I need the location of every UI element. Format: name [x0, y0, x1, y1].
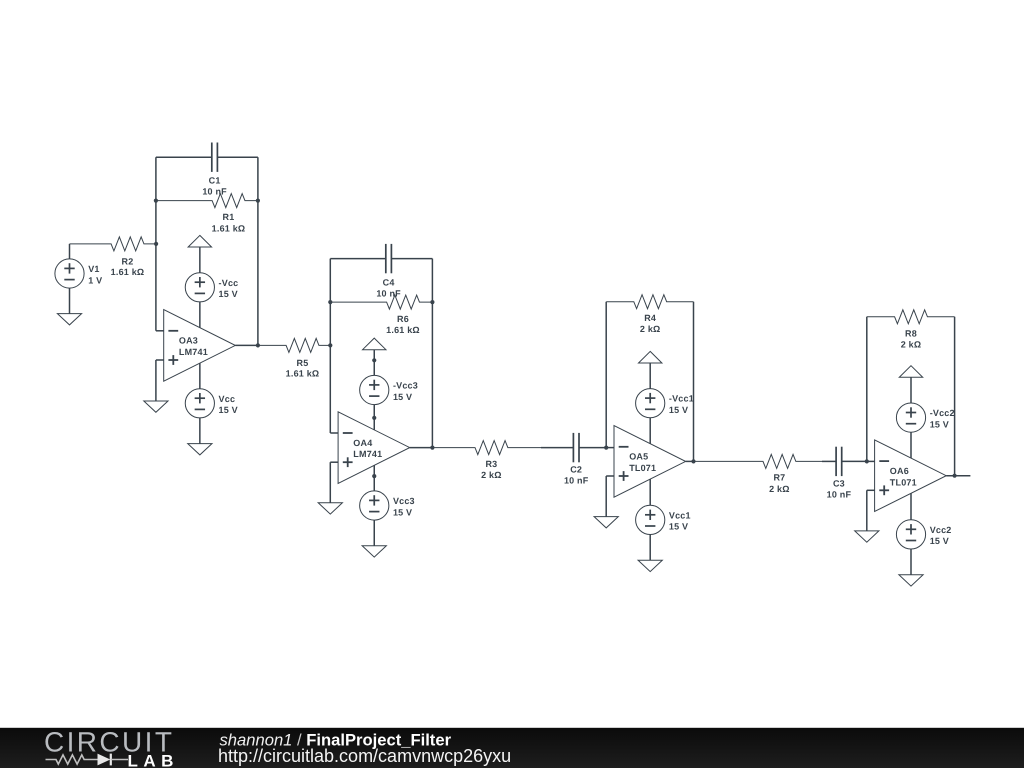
- junction OA3 output / feedback: [256, 343, 260, 347]
- svg-text:C2: C2: [570, 465, 582, 475]
- resistor R6 1.61 k&#937; (feedback): [330, 295, 432, 335]
- svg-text:-Vcc3: -Vcc3: [393, 381, 418, 391]
- wire OA6 inverting input stub: [867, 460, 875, 462]
- op-amp OA5 (TL071): [614, 426, 686, 498]
- wire OA4 non-inverting input down: [329, 462, 331, 503]
- power flag above -Vcc: [188, 235, 211, 247]
- power flag above -Vcc3: [363, 338, 386, 350]
- svg-text:Vcc1: Vcc1: [669, 510, 691, 520]
- svg-text:R4: R4: [644, 313, 656, 323]
- resistor R5 1.61 k&#937; (stage coupling): [258, 338, 330, 378]
- resistor R4 2 k&#937; (feedback): [606, 295, 693, 334]
- svg-text:1.61 kΩ: 1.61 kΩ: [386, 325, 420, 335]
- resistor R7 2 k&#937; (stage coupling): [694, 454, 823, 493]
- junction OA4 V- pin: [372, 474, 376, 478]
- svg-text:15 V: 15 V: [393, 392, 412, 402]
- voltage source -Vcc3 15 V: [360, 375, 418, 404]
- junction stage1 loop right / R1: [256, 199, 260, 203]
- svg-text:2 kΩ: 2 kΩ: [769, 484, 790, 494]
- capacitor C2 10 nF (coupling): [541, 433, 606, 486]
- wire stage1 loop right bus: [257, 157, 259, 345]
- wire OA3 inverting input stub: [156, 330, 164, 332]
- svg-text:OA5: OA5: [629, 452, 648, 462]
- capacitor C3 10 nF (coupling): [822, 447, 867, 500]
- footer banner background: [0, 728, 1024, 768]
- wire OA4 non-inverting input stub: [330, 461, 338, 463]
- svg-text:15 V: 15 V: [219, 405, 238, 415]
- voltage source Vcc2 15 V: [896, 520, 951, 549]
- svg-text:OA4: OA4: [353, 438, 372, 448]
- junction OA5 output / feedback: [691, 459, 695, 463]
- voltage source V1 1 V: [55, 259, 102, 288]
- ground at OA3 non-inverting input: [144, 401, 168, 412]
- voltage source Vcc1 15 V: [636, 505, 691, 534]
- svg-text:C1: C1: [209, 176, 221, 186]
- resistor R3 2 k&#937; (stage coupling): [432, 441, 541, 480]
- svg-text:15 V: 15 V: [930, 536, 949, 546]
- svg-text:-Vcc: -Vcc: [219, 278, 239, 288]
- wire OA5 output: [686, 460, 694, 462]
- wire OA3 non-inverting input down: [155, 360, 157, 401]
- power flag above -Vcc1: [639, 351, 662, 363]
- op-amp OA4 (LM741): [338, 412, 410, 484]
- svg-text:R5: R5: [297, 358, 309, 368]
- wire OA3 output: [235, 344, 258, 346]
- junction stage4 input node: [865, 459, 869, 463]
- wire Vcc2 to ground: [910, 549, 912, 575]
- wire OA3 non-inverting input stub: [156, 359, 164, 361]
- svg-text:10 nF: 10 nF: [564, 476, 589, 486]
- capacitor C1 10 nF (feedback): [156, 143, 258, 197]
- svg-text:C3: C3: [833, 478, 845, 488]
- svg-text:R7: R7: [773, 473, 785, 483]
- wire power flag to -Vcc1: [649, 363, 651, 389]
- junction stage2 loop left / R6: [328, 300, 332, 304]
- wire OA4 output: [410, 447, 433, 449]
- svg-text:OA3: OA3: [179, 336, 198, 346]
- voltage source Vcc 15 V: [185, 389, 238, 418]
- op-amp OA6 (TL071): [875, 440, 947, 512]
- wire OA4 V- pin to Vcc3: [373, 465, 375, 491]
- wire -Vcc1 to OA5 V+ pin: [649, 418, 651, 444]
- ground below Vcc3: [362, 546, 386, 557]
- wire V1 negative terminal down: [69, 288, 71, 314]
- wire OA6 non-inverting input stub: [867, 489, 875, 491]
- power flag above -Vcc2: [899, 366, 922, 378]
- wire OA6 V- pin to Vcc2: [910, 493, 912, 519]
- ground below Vcc2: [899, 575, 923, 586]
- junction OA6 output / feedback: [953, 474, 957, 478]
- svg-text:http://circuitlab.com/camvnwcp: http://circuitlab.com/camvnwcp26yxu: [218, 746, 511, 766]
- capacitor C4 10 nF (feedback): [330, 244, 432, 299]
- wire -Vcc to OA3 V+ pin: [199, 302, 201, 328]
- svg-text:15 V: 15 V: [930, 419, 949, 429]
- svg-text:-Vcc2: -Vcc2: [930, 408, 955, 418]
- voltage source -Vcc 15 V: [185, 273, 238, 302]
- svg-text:R3: R3: [485, 459, 497, 469]
- wire Vcc3 to ground: [373, 520, 375, 546]
- resistor R8 2 k&#937; (feedback): [867, 310, 955, 350]
- ground below Vcc: [188, 444, 212, 455]
- wire OA5 non-inverting input stub: [606, 475, 614, 477]
- svg-text:10 nF: 10 nF: [202, 186, 227, 196]
- ground at OA4 non-inverting input: [318, 503, 342, 514]
- svg-text:OA6: OA6: [890, 466, 909, 476]
- svg-text:C4: C4: [383, 277, 395, 287]
- ground at OA5 non-inverting input: [594, 517, 618, 528]
- svg-text:15 V: 15 V: [393, 507, 412, 517]
- ground at OA6 non-inverting input: [855, 531, 879, 542]
- svg-text:10 nF: 10 nF: [827, 489, 852, 499]
- svg-text:R2: R2: [122, 256, 134, 266]
- svg-text:1.61 kΩ: 1.61 kΩ: [212, 223, 246, 233]
- CircuitLab logo wordmark CIRCUIT: [44, 727, 174, 758]
- resistor R2 1.61 k&#937; (input): [70, 237, 157, 277]
- junction stage3 input node: [604, 446, 608, 450]
- wire Vcc to ground: [199, 418, 201, 444]
- banner url: [218, 746, 511, 766]
- wire stage4 loop right bus: [954, 317, 956, 476]
- voltage source Vcc3 15 V: [360, 491, 415, 520]
- wire Vcc1 to ground: [649, 535, 651, 561]
- svg-text:15 V: 15 V: [669, 522, 688, 532]
- wire OA5 non-inverting input down: [605, 476, 607, 517]
- junction OA4 V+ pin: [372, 416, 376, 420]
- wire stage1 loop left bus to inverting input: [155, 157, 157, 331]
- CircuitLab logo resistor-diode graphic: [46, 754, 129, 766]
- wire stage4 loop left bus: [866, 317, 868, 462]
- svg-text:R6: R6: [397, 314, 409, 324]
- wire V1 positive terminal up: [69, 244, 71, 259]
- voltage source -Vcc1 15 V: [636, 389, 694, 418]
- wire OA6 non-inverting input down: [866, 490, 868, 531]
- CircuitLab logo wordmark LAB: [128, 752, 179, 768]
- junction stage1 loop left / R1: [154, 199, 158, 203]
- wire stage3 loop left bus: [605, 302, 607, 448]
- svg-text:LM741: LM741: [353, 449, 382, 459]
- svg-text:Vcc: Vcc: [219, 394, 236, 404]
- svg-text:2 kΩ: 2 kΩ: [481, 470, 502, 480]
- junction stage2 input node: [328, 343, 332, 347]
- wire -Vcc to power flag: [199, 247, 201, 273]
- wire -Vcc2 to OA6 V+ pin: [910, 432, 912, 458]
- svg-text:15 V: 15 V: [669, 405, 688, 415]
- svg-text:1 V: 1 V: [88, 275, 102, 285]
- wire stage2 loop left bus to inverting input: [329, 259, 331, 433]
- svg-text:Vcc2: Vcc2: [930, 525, 952, 535]
- wire stage2 loop right bus: [431, 259, 433, 448]
- ground below V1: [57, 314, 81, 325]
- wire power flag to -Vcc2: [910, 377, 912, 403]
- ground below Vcc1: [638, 560, 662, 571]
- svg-text:1.61 kΩ: 1.61 kΩ: [286, 369, 320, 379]
- svg-text:R8: R8: [905, 328, 917, 338]
- svg-text:-Vcc1: -Vcc1: [669, 394, 694, 404]
- banner title: shannon1 / FinalProject_Filter: [220, 730, 452, 749]
- junction R2 / inverting bus: [154, 242, 158, 246]
- svg-text:V1: V1: [88, 264, 99, 274]
- wire OA5 inverting input stub: [606, 447, 614, 449]
- wire OA3 V- pin to Vcc: [199, 363, 201, 389]
- svg-text:LAB: LAB: [128, 752, 179, 768]
- junction -Vcc3 positive terminal: [372, 358, 376, 362]
- wire OA5 V- pin to Vcc1: [649, 479, 651, 505]
- svg-text:10 nF: 10 nF: [376, 289, 401, 299]
- svg-text:TL071: TL071: [890, 477, 917, 487]
- svg-text:15 V: 15 V: [219, 289, 238, 299]
- wire -Vcc3 to OA4 V+ pin: [373, 405, 375, 430]
- svg-text:TL071: TL071: [629, 463, 656, 473]
- svg-text:2 kΩ: 2 kΩ: [901, 339, 922, 349]
- voltage source -Vcc2 15 V: [896, 403, 954, 432]
- svg-text:LM741: LM741: [179, 347, 208, 357]
- op-amp OA3 (LM741): [164, 310, 236, 382]
- wire stage3 loop right bus: [693, 302, 695, 462]
- wire power flag to -Vcc3 terminal: [373, 350, 375, 376]
- svg-text:2 kΩ: 2 kΩ: [640, 324, 661, 334]
- svg-text:Vcc3: Vcc3: [393, 496, 415, 506]
- wire OA4 inverting input stub: [330, 432, 338, 434]
- svg-text:R1: R1: [223, 212, 235, 222]
- junction stage2 loop right / R6: [430, 300, 434, 304]
- wire OA6 output: [946, 475, 970, 477]
- junction OA4 output / feedback: [430, 446, 434, 450]
- svg-text:1.61 kΩ: 1.61 kΩ: [111, 267, 145, 277]
- resistor R1 1.61 k&#937; (feedback): [156, 194, 258, 234]
